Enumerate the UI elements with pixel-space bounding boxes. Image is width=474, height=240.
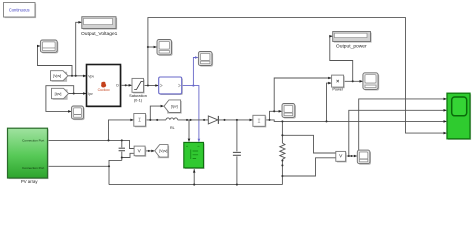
svg-text:RL: RL [170, 126, 175, 130]
svg-text:Cuckoo: Cuckoo [98, 88, 110, 92]
svg-text:PV array: PV array [21, 179, 39, 184]
svg-text:Connection Port: Connection Port [22, 166, 44, 170]
svg-text:Power: Power [332, 88, 343, 92]
svg-text:[Ipv]: [Ipv] [171, 105, 178, 109]
svg-text:[Vpv]: [Vpv] [53, 74, 61, 78]
svg-text:Ipv: Ipv [88, 92, 93, 96]
svg-text:Output_Voltage1: Output_Voltage1 [81, 31, 118, 37]
svg-text:Connection Port: Connection Port [22, 139, 44, 143]
svg-text:Output_power: Output_power [336, 44, 367, 50]
svg-text:[Ipv]: [Ipv] [55, 92, 62, 96]
svg-text:[Vpv]: [Vpv] [159, 149, 167, 153]
svg-text:Vpv: Vpv [88, 74, 94, 78]
svg-text:(0-1): (0-1) [134, 97, 143, 102]
svg-text:Continuous: Continuous [9, 8, 30, 13]
